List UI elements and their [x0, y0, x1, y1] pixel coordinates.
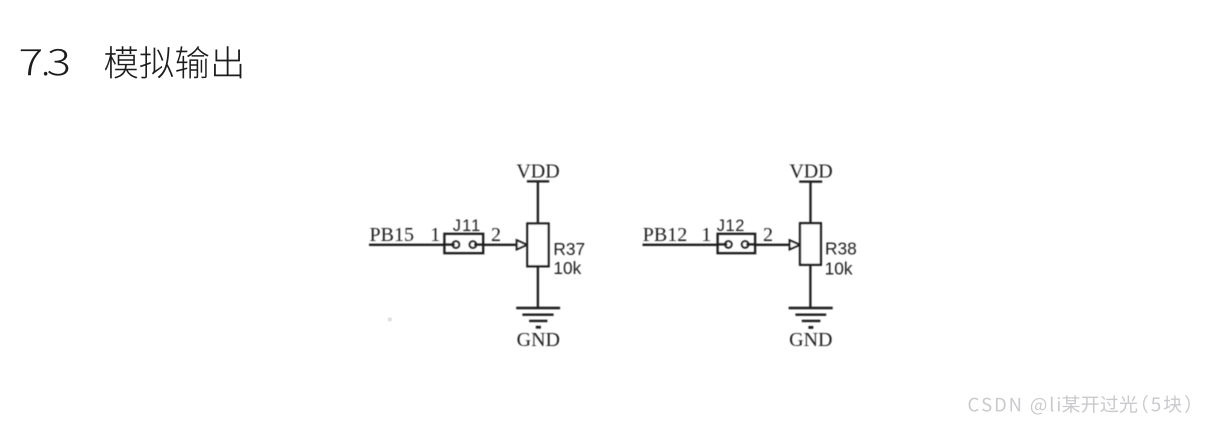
svg-text:2: 2 — [763, 224, 773, 246]
svg-text:10k: 10k — [553, 258, 581, 278]
svg-text:R38: R38 — [825, 239, 857, 259]
power symbol VDD (right) bar — [799, 180, 822, 182]
net label VDD (left) — [516, 161, 559, 183]
stray scan speck — [388, 317, 392, 321]
svg-text:GND: GND — [517, 329, 560, 351]
power symbol VDD (left) bar — [527, 180, 549, 182]
net label VDD (right) — [789, 161, 832, 183]
designator R37 — [553, 239, 585, 259]
section title 7.3 模拟输出 — [21, 46, 242, 78]
wiper arrow of R38 — [790, 240, 800, 249]
ground symbol (right) — [789, 308, 833, 327]
wiper arrow of R37 — [517, 240, 527, 249]
J12 pad 1 — [725, 241, 732, 248]
svg-text:10k: 10k — [825, 259, 853, 279]
svg-text:2: 2 — [491, 224, 501, 246]
pin number 2 (J11) — [491, 224, 501, 246]
svg-text:PB12: PB12 — [643, 224, 687, 246]
wire VDD to R38 top — [809, 182, 811, 224]
wire R38 bottom to GND — [809, 265, 811, 308]
svg-text:VDD: VDD — [516, 161, 559, 183]
CSDN watermark — [969, 395, 1190, 415]
potentiometer R37 body — [527, 224, 548, 267]
pin number 2 (J12) — [763, 224, 773, 246]
wire PB12 to J12 pin1 — [643, 244, 718, 246]
J11 pad 2 — [470, 241, 477, 248]
pin number 1 (J11) — [430, 224, 440, 246]
wire VDD to R37 top — [537, 181, 539, 223]
wire J11 pin2 to R37 wiper — [483, 244, 517, 246]
wire stub into J11 pad 1 — [444, 243, 454, 245]
value 10k (R38) — [825, 259, 853, 279]
jumper J11 body — [444, 234, 483, 253]
svg-text:1: 1 — [701, 224, 711, 246]
jumper J12 body — [718, 234, 756, 253]
pin number 1 (J12) — [701, 224, 711, 246]
designator R38 — [825, 239, 857, 259]
J11 pad 1 — [453, 241, 460, 248]
potentiometer R38 body — [800, 223, 821, 265]
wire PB15 to J11 pin1 — [369, 244, 444, 246]
designator J12 — [717, 217, 745, 235]
svg-text:GND: GND — [789, 329, 832, 351]
wire stub out of J12 pad 2 — [746, 243, 755, 245]
svg-text:J12: J12 — [717, 217, 745, 235]
svg-text:PB15: PB15 — [370, 224, 414, 246]
node PB12 — [643, 224, 687, 246]
designator J11 — [453, 217, 482, 235]
ground symbol (left) — [516, 308, 560, 327]
svg-text:R37: R37 — [553, 239, 585, 259]
wire stub out of J11 pad 2 — [474, 243, 483, 245]
net label GND (right) — [789, 329, 832, 351]
svg-text:VDD: VDD — [789, 161, 832, 183]
node PB15 — [370, 224, 414, 246]
J12 pad 2 — [742, 241, 749, 248]
wire R37 bottom to GND — [537, 266, 539, 308]
net label GND (left) — [517, 329, 560, 351]
wire J12 pin2 to R38 wiper — [755, 244, 790, 246]
value 10k (R37) — [553, 258, 581, 278]
svg-text:1: 1 — [430, 224, 440, 246]
wire stub into J12 pad 1 — [718, 243, 728, 245]
svg-text:J11: J11 — [453, 217, 482, 235]
